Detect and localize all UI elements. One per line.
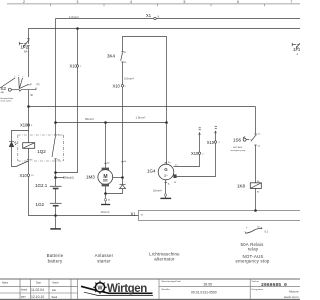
alternator W terminal wire to X10: [173, 126, 220, 184]
svg-text:6: 6: [237, 0, 239, 4]
frame top border: [7, 4, 300, 6]
Wirtgen logo: [81, 281, 153, 296]
starter ground: [101, 186, 112, 214]
svg-text:1.5mm²: 1.5mm²: [136, 116, 146, 120]
svg-text:Bestellnr.: Bestellnr.: [162, 288, 171, 291]
svg-text:Jan: Jan: [52, 288, 57, 292]
bus1: S2 output rail: [29, 106, 256, 108]
svg-text:G: G: [164, 167, 168, 172]
svg-text:16mm²: 16mm²: [153, 189, 162, 193]
svg-text:(1): (1): [37, 83, 40, 86]
wire 1S6 to 1K8: [255, 145, 257, 183]
fuse 1F3 (clipped at right edge): [292, 43, 301, 56]
svg-text:7: 7: [291, 0, 293, 4]
relay 1Q2 dashed enclosure: [18, 135, 64, 161]
svg-text:3: 3: [77, 0, 79, 4]
relay contact 3K4: [107, 37, 167, 123]
svg-text:W: W: [98, 285, 103, 291]
svg-text:emergency stop: emergency stop: [235, 259, 269, 264]
svg-text:Batterie: Batterie: [47, 253, 64, 258]
svg-text:Wirtgen: Wirtgen: [107, 283, 147, 295]
wire loop from 3K4 87 to bus2: [123, 37, 167, 123]
svg-text:X10: X10: [207, 140, 215, 145]
battery 1G2.1: [35, 183, 62, 203]
diode at starter: [106, 178, 126, 194]
svg-text:Maschinentyp/Code: Maschinentyp/Code: [162, 280, 182, 283]
coil bottom wire: [28, 148, 30, 161]
svg-text:alternator: alternator: [154, 256, 175, 261]
svg-text:W: W: [258, 227, 260, 229]
title block: [0, 279, 300, 299]
svg-text:X1: X1: [131, 211, 137, 216]
minus rail to X1: [56, 215, 139, 217]
svg-text:main switch: main switch: [1, 100, 13, 103]
svg-text:NOT-AUS: NOT-AUS: [233, 146, 243, 149]
svg-text:1G2: 1G2: [36, 202, 45, 207]
svg-text:12.10.10: 12.10.10: [31, 295, 44, 299]
svg-text:0.1: 0.1: [265, 230, 269, 234]
svg-text:39.95: 39.95: [204, 283, 213, 287]
connector X1 pin 6 on wire A: [146, 13, 160, 20]
svg-text:starter: starter: [97, 259, 111, 264]
wire B (to fuse 1F2): [29, 29, 301, 45]
svg-text:emergency stop: emergency stop: [231, 149, 247, 152]
svg-text:X10: X10: [20, 173, 28, 178]
svg-text:1Q2: 1Q2: [37, 149, 46, 154]
battery ground: [50, 216, 61, 229]
svg-text:M: M: [103, 174, 107, 180]
alternator ground: [153, 180, 171, 199]
svg-text:16mm²: 16mm²: [101, 210, 110, 214]
svg-text:Anlasser: Anlasser: [95, 253, 114, 258]
suppressor diode across 1Q2 coil: [9, 131, 28, 167]
wire battery+ drop (50mm2): [56, 29, 78, 173]
svg-text:Saul: Saul: [52, 295, 58, 299]
svg-text:X10: X10: [20, 123, 28, 128]
1Q2 main contact (battery relay): [52, 135, 61, 187]
svg-text:X10: X10: [191, 151, 199, 156]
alternator D+ wire to X10: [173, 128, 204, 167]
battery minus node: [54, 214, 57, 217]
wire A (battery + top rail): [56, 18, 301, 20]
svg-text:1K8: 1K8: [237, 184, 246, 189]
svg-text:Hauptschalter: Hauptschalter: [1, 97, 14, 100]
node on wire B to battery drop: [76, 27, 79, 30]
svg-text:1G4: 1G4: [147, 169, 156, 174]
node S2 drop / bus1: [27, 105, 30, 108]
switch 1S6 emergency stop: [231, 134, 261, 153]
cable label stub: [56, 176, 75, 179]
svg-text:1S6: 1S6: [233, 138, 242, 143]
svg-text:relay: relay: [248, 246, 259, 251]
svg-text:Designation: Designation: [252, 288, 264, 291]
svg-text:Zeichnr.: Zeichnr.: [252, 280, 260, 283]
connector X10 pin on 3K4 wire: [113, 83, 127, 88]
fuse 1F2: [19, 39, 29, 77]
connector strip X1: [131, 211, 301, 221]
svg-text:electr.conn: electr.conn: [284, 295, 299, 299]
svg-text:Name: Name: [2, 282, 9, 284]
connector X10 pin 15: [20, 173, 35, 178]
wire A drop to 1Q2 contact: [55, 19, 57, 136]
svg-text:gepr: gepr: [21, 296, 26, 299]
svg-text:0,5mm²: 0,5mm²: [124, 77, 134, 81]
function labels: [47, 242, 270, 263]
emergency stop branch: bus1 corner down: [255, 107, 257, 134]
revision squiggle: [245, 227, 269, 234]
svg-text:8A: 8A: [24, 49, 28, 53]
connector X10 pin on battery drop: [70, 63, 83, 68]
svg-text:Name: Name: [53, 282, 60, 284]
svg-text:Motore: Motore: [289, 290, 299, 294]
relay coil 1Q2: [23, 143, 47, 154]
connector X10 pin 9 on S2 drop: [20, 123, 33, 128]
node 1K8 on X1 strip: [254, 209, 257, 212]
column numbers: [23, 0, 293, 4]
svg-text:3K4: 3K4: [107, 54, 116, 59]
starter motor 1M3: [86, 123, 113, 187]
svg-text:Date: Date: [36, 281, 42, 284]
svg-text:battery: battery: [48, 259, 63, 264]
svg-text:5: 5: [184, 0, 186, 4]
bus2: battery+ distribution: [56, 122, 167, 124]
wire S2 drop to relay coil: [28, 107, 30, 143]
switch S2 (main/key switch): [0, 75, 40, 107]
alternator 1G4: [147, 123, 174, 180]
svg-text:1G2.1: 1G2.1: [35, 183, 48, 188]
svg-text:4: 4: [130, 0, 132, 4]
relay coil 1K8: [237, 181, 261, 194]
svg-text:Black(1): Black(1): [65, 177, 74, 180]
wire 3K4 30 down to starter 50: [122, 62, 124, 162]
svg-text:50mm²: 50mm²: [85, 117, 94, 121]
battery 1G2: [36, 202, 62, 216]
svg-text:1.6mm²: 1.6mm²: [69, 15, 79, 19]
title block right cells: [162, 280, 299, 299]
battery + node: [54, 171, 57, 174]
wire coil to minus rail: [29, 161, 56, 216]
svg-text:09.01.0131-0500: 09.01.0131-0500: [191, 290, 217, 294]
svg-text:2069585 0: 2069585 0: [261, 282, 287, 288]
svg-text:bearb: bearb: [21, 289, 28, 292]
wire 1K8 to X1 strip: [255, 188, 257, 210]
svg-text:11.02.04: 11.02.04: [31, 288, 44, 292]
starter solenoid pin 50 wire: [113, 161, 127, 179]
svg-text:X10: X10: [113, 83, 121, 88]
svg-text:2: 2: [23, 0, 25, 4]
svg-text:X1: X1: [146, 13, 152, 18]
svg-text:1M3: 1M3: [86, 175, 95, 180]
svg-text:B-: B-: [168, 184, 170, 186]
